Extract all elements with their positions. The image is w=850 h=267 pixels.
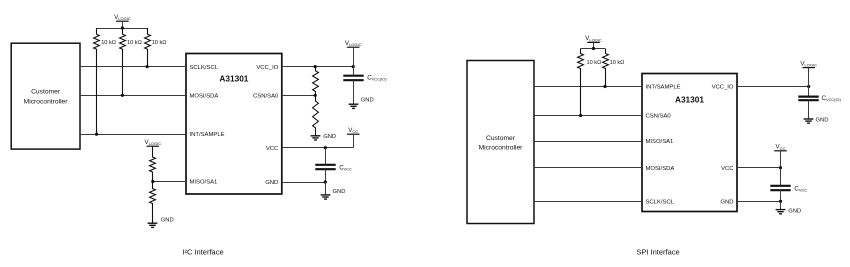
svg-text:GND: GND [816,118,829,124]
svg-text:VLOGIC: VLOGIC [800,60,817,67]
resistor R6 (SA0 divider top) [313,67,319,96]
capacitor C2 CVCC (I2C) [315,148,335,182]
svg-text:CVCC(IO): CVCC(IO) [367,75,387,82]
wire SA1 net (I2C) [153,181,186,183]
svg-text:VLOGIC: VLOGIC [145,139,162,146]
svg-text:INT/SAMPLE: INT/SAMPLE [190,132,225,138]
svg-text:SCLK/SCL: SCLK/SCL [646,200,675,206]
junction VCC/CVCC [324,146,327,149]
svg-text:10 kΩ: 10 kΩ [152,40,167,46]
svg-text:CVCC: CVCC [794,186,807,193]
svg-text:GND: GND [720,200,733,206]
svg-text:VCC_IO: VCC_IO [256,65,278,71]
wire MISO net (SPI) [534,141,642,143]
wire SCL net (I2C) [80,66,186,68]
svg-text:10 kΩ: 10 kΩ [610,60,625,66]
svg-text:Customer: Customer [486,135,516,142]
svg-text:VCC: VCC [776,144,786,151]
svg-text:VCC: VCC [348,127,358,134]
svg-text:GND: GND [361,97,374,103]
wire GND net (SPI) [737,201,781,203]
svg-text:INT/SAMPLE: INT/SAMPLE [646,85,681,91]
capacitor C1 CVCCIO (I2C) [343,67,363,105]
svg-text:I²C Interface: I²C Interface [182,247,223,256]
wire pull-up rail (SPI) [581,48,605,50]
wire CSN/SA0 net (I2C) [282,95,315,97]
wire SDA net (I2C) [80,95,186,97]
svg-text:VCC_IO: VCC_IO [712,85,734,91]
junction VCC/CVCC (SPI) [779,166,782,169]
ground (SA1 divider) [148,218,174,228]
svg-text:A31301: A31301 [219,74,248,84]
svg-text:GND: GND [788,208,801,214]
power VLOGIC (SA1 divider) [145,139,162,157]
wire VCC net (SPI) [737,167,781,169]
resistor R3 10k (SCL pull-up) [145,28,167,67]
capacitor C4 CVCC (SPI) [770,168,790,202]
resistor R2 10k (SDA pull-up) [120,28,142,95]
svg-text:CVCC(IO): CVCC(IO) [822,95,842,102]
svg-text:Customer: Customer [31,89,61,96]
junction R4/R5/SA1 [151,180,154,183]
svg-text:MOSI/SDA: MOSI/SDA [190,93,219,99]
junction VCC_IO/R6 [314,65,317,68]
svg-text:SPI Interface: SPI Interface [636,248,679,257]
svg-text:GND: GND [161,218,174,224]
svg-text:MOSI/SDA: MOSI/SDA [646,166,675,172]
svg-text:GND: GND [333,189,346,195]
wire MOSI net (SPI) [534,167,642,169]
svg-text:CSN/SA0: CSN/SA0 [646,114,672,120]
power VCC (SPI) [774,144,787,168]
power VLOGIC (I2C pull-ups) [114,14,131,28]
svg-text:A31301: A31301 [675,94,704,104]
svg-text:10 kΩ: 10 kΩ [587,60,602,66]
wire CSN net (SPI) [534,115,642,117]
A31301 U1 (I2C) [186,54,282,195]
wire INT net (I2C) [80,134,186,136]
junction GND/CVCC (SPI) [779,200,782,203]
junction R1/INT [95,133,98,136]
wire VCC_IO net (I2C) [282,66,353,68]
resistor R1 10k (INT pull-up) [94,28,116,134]
svg-text:VLOGIC: VLOGIC [114,14,131,21]
svg-text:Microcontroller: Microcontroller [479,145,524,152]
svg-text:CSN/SA0: CSN/SA0 [253,93,279,99]
resistor R5 (SA1 divider bottom) [150,182,156,224]
resistor R9 10k (INT pull-up) [603,49,625,87]
svg-text:VCC: VCC [721,166,734,172]
wire GND drop (SPI) [780,201,782,209]
junction R2/SDA [121,94,124,97]
svg-text:10 kΩ: 10 kΩ [127,40,142,46]
junction R3/SCL [146,65,149,68]
ground (CVCCIO SPI) [804,118,829,124]
svg-text:GND: GND [265,180,278,186]
power VLOGIC (SPI pull-ups) [585,35,602,48]
customer microcontroller (I2C) [11,43,80,149]
svg-text:CVCC: CVCC [339,165,352,172]
wire GND net (I2C) [282,182,326,184]
svg-text:Microcontroller: Microcontroller [24,99,69,106]
wire pull-up rail (I2C) [97,28,148,30]
svg-text:MISO/SA1: MISO/SA1 [646,139,674,145]
power VLOGIC (SPI VCC_IO) [800,60,817,86]
ground (U1 GND) [321,189,346,199]
ground (CVCCIO) [349,97,374,108]
junction R8/CSN [579,114,582,117]
capacitor C3 CVCCIO (SPI) [798,87,818,120]
customer microcontroller (SPI) [467,61,534,224]
junction R9/INT [603,85,606,88]
resistor R8 10k (CSN pull-up) [578,49,602,116]
A31301 U2 (SPI) [642,74,737,212]
power VCC (I2C) [347,127,360,148]
svg-text:VLOGIC: VLOGIC [585,35,602,42]
svg-text:MISO/SA1: MISO/SA1 [190,180,218,186]
junction rail/VLOGIC tap [121,26,124,29]
power VLOGIC (VCC_IO) [345,40,362,67]
svg-text:10 kΩ: 10 kΩ [101,40,116,46]
wire INT net (SPI) [534,86,642,88]
wire SCLK net (SPI) [534,201,642,203]
resistor R7 (SA0 divider bottom) [313,95,319,136]
svg-text:VCC: VCC [266,146,279,152]
wire VCC_IO net (SPI) [737,86,809,88]
junction VCC_IO/CVCCIO (SPI) [807,85,810,88]
wire GND drop (I2C) [325,182,327,195]
wire VCC net (I2C) [282,147,353,149]
junction rail/VLOGIC tap (SPI) [592,47,595,50]
ground (U2 GND) [776,208,802,214]
junction GND/CVCC [324,180,327,183]
ground (SA0 divider) [311,134,336,140]
svg-text:GND: GND [323,134,336,140]
junction VCC_IO/CVCCIO [352,65,355,68]
svg-text:SCLK/SCL: SCLK/SCL [190,65,219,71]
resistor R4 (SA1 divider top) [150,146,156,181]
svg-text:VLOGIC: VLOGIC [345,40,362,47]
junction R6/R7/SA0 [314,94,317,97]
